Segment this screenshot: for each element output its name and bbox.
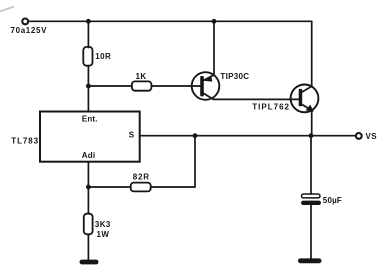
svg-text:S: S xyxy=(129,130,135,139)
svg-text:Ent.: Ent. xyxy=(82,114,98,123)
svg-text:3K3: 3K3 xyxy=(95,220,111,229)
svg-text:82R: 82R xyxy=(133,172,150,181)
svg-text:1K: 1K xyxy=(136,72,147,81)
svg-text:1W: 1W xyxy=(97,230,110,239)
svg-text:50µF: 50µF xyxy=(323,196,342,205)
svg-text:Adi: Adi xyxy=(82,151,96,160)
svg-text:TL783: TL783 xyxy=(11,136,39,145)
svg-text:70a125V: 70a125V xyxy=(11,26,48,35)
svg-text:TIP30C: TIP30C xyxy=(220,72,249,81)
svg-text:TIPL762: TIPL762 xyxy=(252,103,290,112)
svg-text:VS: VS xyxy=(366,132,378,141)
svg-text:10R: 10R xyxy=(95,52,111,61)
